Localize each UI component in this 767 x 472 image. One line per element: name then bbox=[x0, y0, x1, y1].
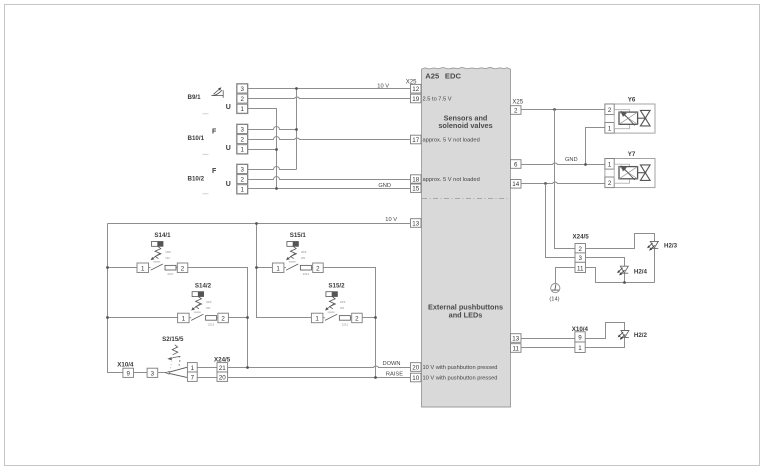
junction dot GND rail at B10/2-1 bbox=[275, 187, 278, 190]
svg-text:2: 2 bbox=[608, 107, 612, 114]
svg-text:3: 3 bbox=[240, 86, 244, 93]
svg-text:15: 15 bbox=[412, 186, 419, 193]
svg-text:ON: ON bbox=[166, 256, 170, 260]
wire X24/5-3 to LED H2/4 bbox=[586, 258, 625, 267]
dash mark below B10/1 bbox=[203, 153, 209, 155]
terminal X24/5-21 bbox=[217, 363, 228, 372]
wire S15/1 terminal 2 to RAISE rail bbox=[324, 268, 376, 378]
terminal B10/2-1 bbox=[237, 185, 248, 194]
svg-text:ON: ON bbox=[340, 306, 344, 310]
10V rail vertical bbox=[296, 89, 298, 170]
pin X25-10 bbox=[411, 373, 422, 382]
svg-text:S14/1: S14/1 bbox=[154, 232, 171, 239]
pin X25-2 bbox=[511, 106, 522, 115]
connector B10/1 outer bbox=[237, 124, 249, 154]
svg-text:U: U bbox=[226, 145, 231, 152]
svg-text:2: 2 bbox=[240, 96, 244, 103]
pin X25-19 bbox=[411, 94, 422, 103]
terminal X10/4-9 right bbox=[575, 332, 585, 342]
svg-text:1: 1 bbox=[578, 345, 582, 352]
wire S14/2 terminal 2 to DOWN rail bbox=[229, 317, 248, 319]
dash mark below B9/1 bbox=[203, 113, 209, 115]
svg-text:9: 9 bbox=[578, 335, 582, 342]
svg-text:14: 14 bbox=[512, 181, 519, 188]
wire X25-11 right to X10/4-1 bbox=[522, 347, 575, 349]
svg-text:approx. 5 V not loaded: approx. 5 V not loaded bbox=[423, 137, 480, 143]
terminal B10/1-1 bbox=[237, 145, 248, 154]
junction dot DOWN rail at S14/2 bbox=[246, 316, 249, 319]
svg-text:F: F bbox=[212, 168, 217, 175]
wire 7 to X24/5-20 bbox=[198, 377, 218, 379]
terminal S2/15/5-7 bbox=[187, 372, 197, 381]
terminal X24/5-3 bbox=[575, 253, 586, 262]
wire X10/4-1 to LED H2/2 return bbox=[586, 338, 625, 348]
junction dot S15 rail at S15/1 bbox=[255, 266, 258, 269]
wire B10/1-1 to GND rail bbox=[248, 149, 277, 151]
svg-text:OFF: OFF bbox=[301, 250, 307, 254]
pin X25-11 right bbox=[511, 344, 522, 353]
sensor B9/1 angle symbol bbox=[211, 87, 223, 98]
wire 10V feed to X25-13 left bbox=[108, 223, 411, 225]
pin X25-17 bbox=[411, 135, 422, 144]
svg-text:ON: ON bbox=[301, 256, 305, 260]
junction dot rail at S14/1 bbox=[106, 266, 109, 269]
svg-text:3: 3 bbox=[151, 370, 155, 377]
wire X24/5-2 to LED H2/3 bbox=[586, 234, 655, 249]
svg-text:1: 1 bbox=[608, 161, 612, 168]
svg-text:2: 2 bbox=[608, 180, 612, 187]
svg-text:1: 1 bbox=[240, 106, 244, 113]
svg-text:and LEDs: and LEDs bbox=[449, 310, 483, 319]
wire B10/1-3 to 10V rail with hop over GND rail bbox=[248, 127, 297, 130]
svg-text:2: 2 bbox=[355, 316, 359, 323]
svg-text:2: 2 bbox=[181, 265, 185, 272]
wire S14/1 terminal 2 to DOWN rail bbox=[188, 268, 248, 368]
terminal B9/1-2 bbox=[237, 94, 248, 103]
branch rail X25-2 to X24/5-2 bbox=[555, 110, 576, 249]
wire S15 rail to S15/1 terminal 1 bbox=[257, 267, 273, 269]
terminal B9/1-1 bbox=[237, 104, 248, 113]
wire B10/2-1 to X25-15 (GND) bbox=[248, 188, 411, 190]
svg-text:A25: A25 bbox=[425, 71, 440, 80]
wire B9/1-2 to X25-19 with hop over 10V rail bbox=[248, 97, 411, 99]
wire X24/5-11 to LED return rail bbox=[586, 268, 655, 283]
svg-text:Y7: Y7 bbox=[628, 151, 636, 158]
wire Y6 pin 1 to GND bbox=[586, 128, 605, 165]
S15 supply rail bbox=[257, 224, 312, 318]
terminal X10/4-1 right bbox=[575, 342, 585, 353]
wire X25-13 right to X10/4-9 bbox=[522, 338, 575, 340]
svg-text:11: 11 bbox=[512, 345, 519, 352]
branch rail X25-14 to X24/5-3 bbox=[546, 184, 576, 258]
svg-text:OFF: OFF bbox=[340, 300, 346, 304]
svg-text:2217: 2217 bbox=[167, 272, 174, 276]
svg-text:Y6: Y6 bbox=[628, 97, 636, 104]
selector fork blades bbox=[166, 367, 187, 377]
svg-text:19: 19 bbox=[412, 96, 419, 103]
svg-text:B10/2: B10/2 bbox=[188, 175, 205, 182]
svg-text:1: 1 bbox=[182, 316, 186, 323]
junction dot 10V rail at B10/1-3 bbox=[295, 128, 298, 131]
junction dot GND rail at B10/1-1 bbox=[275, 148, 278, 151]
svg-text:RAISE: RAISE bbox=[386, 372, 403, 378]
wire B10/1-2 to X25-17 with hops over both rails bbox=[248, 137, 411, 140]
svg-text:S2/15/5: S2/15/5 bbox=[162, 336, 184, 343]
dashed section divider inside A25 bbox=[422, 198, 510, 200]
svg-text:U: U bbox=[226, 104, 231, 111]
svg-text:3: 3 bbox=[578, 255, 582, 262]
svg-text:17: 17 bbox=[412, 137, 419, 144]
svg-text:OFF: OFF bbox=[166, 250, 172, 254]
LED H2/4 cathode lead bbox=[624, 274, 626, 283]
terminal S2/15/5-1 bbox=[187, 363, 197, 372]
svg-text:EDC: EDC bbox=[445, 71, 462, 80]
connector B9/1 outer bbox=[237, 84, 249, 114]
junction dot X25-14 branch bbox=[544, 182, 547, 185]
svg-text:3: 3 bbox=[240, 127, 244, 134]
svg-text:F: F bbox=[212, 129, 217, 136]
connector B10/2 outer bbox=[237, 164, 249, 194]
pin X25-6 bbox=[511, 160, 522, 169]
svg-text:13: 13 bbox=[412, 220, 419, 227]
svg-text:X10/4: X10/4 bbox=[117, 362, 134, 369]
svg-text:9: 9 bbox=[126, 370, 130, 377]
pin X25-14 bbox=[511, 180, 522, 189]
svg-text:(14): (14) bbox=[549, 296, 559, 302]
terminal X24/5-2 bbox=[575, 244, 586, 253]
svg-text:approx. 5 V not loaded: approx. 5 V not loaded bbox=[423, 177, 480, 183]
left supply rail bbox=[108, 224, 123, 373]
wire 1 to X24/5-21 bbox=[198, 367, 218, 369]
svg-text:GND: GND bbox=[565, 157, 578, 163]
wire RAISE to X25-10 bbox=[228, 377, 411, 379]
svg-text:6: 6 bbox=[514, 161, 518, 168]
junction dot 10V at S15 rail bbox=[255, 222, 258, 225]
svg-text:10 V: 10 V bbox=[385, 217, 397, 223]
svg-text:2: 2 bbox=[240, 137, 244, 144]
terminal B10/2-2 bbox=[237, 175, 248, 184]
svg-text:10: 10 bbox=[412, 375, 419, 382]
svg-text:1: 1 bbox=[191, 365, 195, 372]
svg-text:2214: 2214 bbox=[303, 272, 310, 276]
junction dot DOWN at S14 rail bbox=[246, 366, 249, 369]
svg-text:1: 1 bbox=[240, 187, 244, 194]
svg-text:DOWN: DOWN bbox=[382, 361, 400, 367]
dash mark below B10/2 bbox=[203, 193, 209, 195]
svg-text:S14/2: S14/2 bbox=[195, 282, 212, 289]
pin X25-13 right bbox=[511, 334, 522, 343]
terminal B9/1-3 bbox=[237, 84, 248, 93]
svg-text:H2/2: H2/2 bbox=[634, 332, 648, 339]
svg-text:S15/2: S15/2 bbox=[328, 282, 345, 289]
pin X25-15 bbox=[411, 184, 422, 193]
svg-text:B9/1: B9/1 bbox=[188, 94, 202, 101]
svg-text:21: 21 bbox=[219, 365, 226, 372]
terminal B10/1-3 bbox=[237, 125, 248, 134]
svg-text:H2/3: H2/3 bbox=[664, 242, 678, 249]
svg-text:20: 20 bbox=[219, 374, 226, 381]
terminal B10/2-3 bbox=[237, 165, 248, 174]
wire rail to S14/2 terminal 1 bbox=[108, 317, 178, 319]
wire X10/4-9 to LED H2/2 bbox=[586, 323, 625, 339]
svg-text:10 V with pushbutton pressed: 10 V with pushbutton pressed bbox=[423, 376, 498, 382]
svg-text:OFF: OFF bbox=[206, 300, 212, 304]
svg-text:U: U bbox=[226, 181, 231, 188]
svg-text:1: 1 bbox=[276, 265, 280, 272]
svg-text:2213: 2213 bbox=[208, 322, 215, 326]
wire X25-14 to Y7 pin 2 with hop over branch rail bbox=[522, 182, 605, 184]
svg-text:ON: ON bbox=[206, 306, 210, 310]
junction dot return rail at H2/4 bbox=[623, 281, 626, 284]
wire S15/2 terminal 2 to RAISE rail bbox=[363, 317, 376, 319]
pin X25-18 bbox=[411, 175, 422, 184]
svg-text:B10/1: B10/1 bbox=[188, 135, 205, 142]
svg-text:solenoid valves: solenoid valves bbox=[438, 121, 492, 130]
svg-text:1: 1 bbox=[240, 147, 244, 154]
pin X25-13 left bbox=[411, 219, 422, 228]
svg-text:2212: 2212 bbox=[342, 322, 349, 326]
junction dot GND at Y6 return bbox=[584, 163, 587, 166]
ground point (14) bbox=[551, 284, 560, 293]
svg-text:2: 2 bbox=[221, 316, 225, 323]
wire B10/2-2 to X25-18 with hop over GND rail bbox=[248, 177, 411, 180]
svg-text:X25: X25 bbox=[512, 99, 523, 105]
svg-text:20: 20 bbox=[412, 364, 419, 371]
wire X24/5-11 to ground point bbox=[556, 268, 576, 284]
svg-text:12: 12 bbox=[412, 86, 419, 93]
wire B9/1-1 to GND rail bbox=[248, 109, 277, 189]
svg-text:1: 1 bbox=[315, 316, 319, 323]
wire B9/1-3 to X25-12 (10 V) bbox=[248, 88, 411, 90]
svg-text:1: 1 bbox=[141, 265, 145, 272]
svg-text:11: 11 bbox=[577, 265, 584, 272]
svg-text:2: 2 bbox=[316, 265, 320, 272]
wire B10/2-3 to 10V rail with hop over GND rail bbox=[248, 167, 297, 170]
wire X10/4-3 to selector fork bbox=[158, 372, 167, 374]
ECU block A25 EDC (torn top edge) bbox=[422, 67, 511, 407]
svg-text:2: 2 bbox=[240, 177, 244, 184]
svg-text:18: 18 bbox=[412, 176, 419, 183]
junction dot 10V rail at B9/1-3 bbox=[295, 87, 298, 90]
terminal X10/4-9 bbox=[123, 368, 134, 377]
svg-text:2: 2 bbox=[578, 246, 582, 253]
pin X25-12 bbox=[411, 84, 422, 93]
svg-text:S15/1: S15/1 bbox=[290, 232, 307, 239]
svg-text:X24/5: X24/5 bbox=[573, 233, 590, 240]
terminal B10/1-2 bbox=[237, 135, 248, 144]
junction dot X25-2 branch bbox=[553, 108, 556, 111]
terminal X24/5-20 bbox=[217, 372, 228, 381]
junction dot rail at S14/2 bbox=[106, 316, 109, 319]
svg-text:2.5 to 7.5 V: 2.5 to 7.5 V bbox=[423, 96, 452, 102]
svg-text:3: 3 bbox=[240, 167, 244, 174]
wire X10/4-9 to X10/4-3 bbox=[134, 372, 148, 374]
svg-text:10 V with pushbutton pressed: 10 V with pushbutton pressed bbox=[423, 365, 498, 371]
svg-text:13: 13 bbox=[512, 335, 519, 342]
wire DOWN to X25-20 with hop over RAISE rail bbox=[228, 366, 411, 368]
svg-text:1: 1 bbox=[608, 125, 612, 132]
svg-text:H2/4: H2/4 bbox=[634, 269, 648, 276]
LED H2/3 cathode lead bbox=[654, 249, 656, 283]
wire rail to S14/1 terminal 1 bbox=[108, 267, 138, 269]
terminal X10/4-3 bbox=[147, 368, 158, 377]
wire X25-2 to Y6 pin 2 bbox=[522, 109, 605, 111]
terminal X24/5-11 bbox=[575, 262, 586, 272]
svg-text:7: 7 bbox=[191, 374, 195, 381]
junction dot RAISE at S15 rail bbox=[374, 376, 377, 379]
wire X25-6 to Y7 pin 1 (GND) with hop over branch rail bbox=[522, 163, 605, 165]
pin X25-20 bbox=[411, 363, 422, 372]
junction dot RAISE rail at S15/2 bbox=[374, 316, 377, 319]
svg-text:2: 2 bbox=[514, 107, 518, 114]
